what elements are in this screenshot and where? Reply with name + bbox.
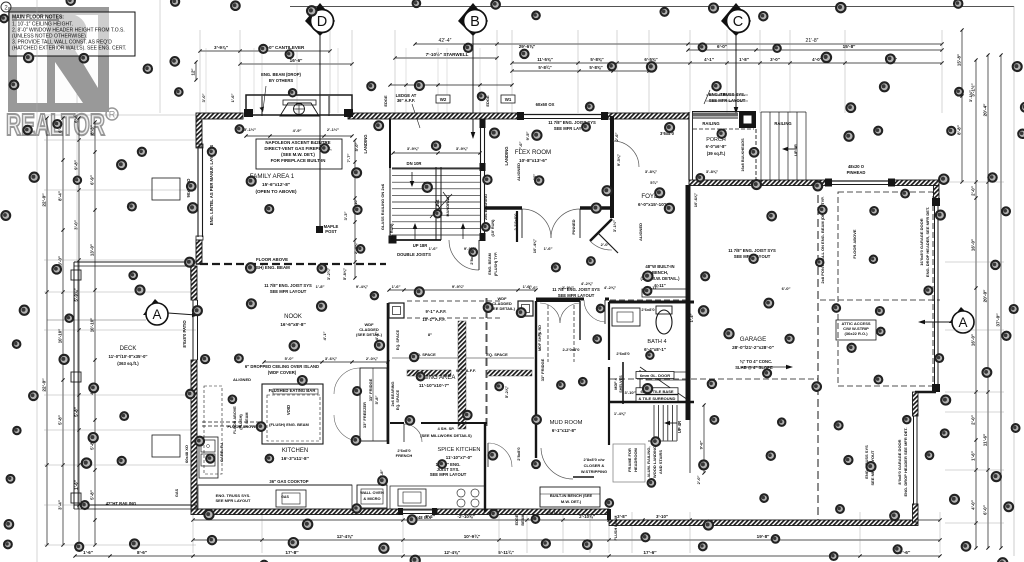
svg-text:RAILING: RAILING [702,121,719,126]
svg-text:6’-0″: 6’-0″ [983,504,988,515]
svg-text:6’-0″: 6’-0″ [782,286,791,291]
svg-text:28’-0″/21’-2″x28’-0″: 28’-0″/21’-2″x28’-0″ [732,345,775,350]
svg-text:9’-4⅝″: 9’-4⅝″ [356,284,368,289]
svg-text:ALIGNED: ALIGNED [233,377,251,382]
svg-text:(39 sq.ft.): (39 sq.ft.) [707,151,726,156]
svg-text:22’-0″: 22’-0″ [42,193,48,207]
svg-text:AND STAIRS: AND STAIRS [658,450,663,474]
svg-text:8’-4″: 8’-4″ [58,190,63,201]
svg-text:3’-10″: 3’-10″ [656,514,669,519]
svg-text:ENG. DROP HEADER SEE MFR DET.: ENG. DROP HEADER SEE MFR DET. [903,427,908,496]
svg-text:POST: POST [325,229,337,234]
svg-text:FAMILY AREA 1: FAMILY AREA 1 [250,173,295,180]
svg-text:60x16.0: 60x16.0 [547,510,562,515]
svg-text:20’-0″: 20’-0″ [983,289,988,302]
svg-text:5’-8⅝″: 5’-8⅝″ [342,268,347,280]
svg-text:48″W BUILT-IN: 48″W BUILT-IN [645,264,674,269]
svg-text:5’-8⅝″: 5’-8⅝″ [589,65,603,70]
svg-text:2’-0″: 2’-0″ [971,414,976,425]
svg-text:(FLUSH): (FLUSH) [239,414,243,430]
svg-text:17’-6″: 17’-6″ [643,550,657,556]
svg-text:ALIGNED: ALIGNED [638,223,643,241]
svg-text:11’-10″x7’-0″: 11’-10″x7’-0″ [446,455,473,460]
svg-text:9’-5″: 9’-5″ [525,132,530,141]
svg-text:(OPEN TO ABOVE): (OPEN TO ABOVE) [255,189,297,194]
svg-text:2’6x8’0: 2’6x8’0 [616,351,630,356]
svg-text:8’-3″: 8’-3″ [90,124,95,135]
svg-text:6’-0″: 6’-0″ [719,92,728,97]
svg-text:5¾″: 5¾″ [650,180,658,185]
svg-text:BENCH,: BENCH, [652,270,668,275]
svg-text:4’-0″: 4’-0″ [971,499,976,510]
svg-text:15’-6″x12’-8″: 15’-6″x12’-8″ [262,182,291,187]
svg-text:UP 4R: UP 4R [677,421,682,433]
svg-text:FLUSHED EATING BAR: FLUSHED EATING BAR [269,388,316,393]
svg-text:2’-0″: 2’-0″ [696,476,701,485]
svg-text:SEE MFR LAYOUT: SEE MFR LAYOUT [558,293,595,298]
svg-text:GARB. R.I.: GARB. R.I. [219,442,224,462]
svg-text:5’-8⅝″: 5’-8⅝″ [590,57,604,62]
svg-text:& TILE SURROUND: & TILE SURROUND [639,396,676,401]
svg-text:5’-8¾″: 5’-8¾″ [538,65,552,70]
svg-text:ALUM. RAILING,: ALUM. RAILING, [646,446,651,477]
svg-text:42’-4″: 42’-4″ [439,38,452,44]
svg-text:29’-6⅝″: 29’-6⅝″ [519,44,536,49]
svg-text:W1: W1 [505,97,512,102]
svg-text:1’-6″: 1’-6″ [529,285,538,290]
svg-text:(SEE M.W. DET.): (SEE M.W. DET.) [281,152,315,157]
svg-text:PINHEAD: PINHEAD [847,170,866,175]
svg-text:B: B [470,14,480,30]
svg-text:EQ. SPACE: EQ. SPACE [486,352,508,357]
svg-text:3’-8⅝″: 3’-8⅝″ [645,169,657,174]
svg-text:(FLUSH) ENG. BEAM: (FLUSH) ENG. BEAM [269,422,309,427]
svg-text:7’-6″: 7’-6″ [518,142,523,151]
svg-text:6’-0″x15’-10″: 6’-0″x15’-10″ [638,202,667,207]
svg-text:BATH 4: BATH 4 [647,339,666,345]
svg-text:9’-6″: 9’-6″ [699,441,704,450]
svg-text:3’-10″: 3’-10″ [624,390,635,395]
svg-text:2’-10⅝″: 2’-10⅝″ [579,514,596,519]
svg-text:1’-8″: 1’-8″ [739,57,750,62]
svg-text:11’-0″/10’-0″x35’-0″: 11’-0″/10’-0″x35’-0″ [109,354,148,359]
svg-text:3’-4″: 3’-4″ [58,499,63,510]
svg-text:1’-8″: 1’-8″ [316,284,325,289]
svg-text:BEAM: BEAM [245,412,249,423]
svg-text:20’-4″: 20’-4″ [983,103,988,116]
svg-text:(10’ RUN): (10’ RUN) [390,223,394,241]
svg-text:UP 4R: UP 4R [793,144,798,156]
svg-text:SEE MFR LAYOUT: SEE MFR LAYOUT [709,98,746,103]
svg-text:5’-1½″: 5’-1½″ [244,127,256,132]
svg-text:W2: W2 [440,97,447,102]
svg-text:FLOOR ABOVE: FLOOR ABOVE [256,257,288,262]
svg-text:9’-1″ A.F.F.: 9’-1″ A.F.F. [426,309,447,314]
svg-text:A: A [152,307,161,322]
svg-text:1’-6″: 1’-6″ [230,94,235,103]
svg-text:SHELVES: SHELVES [619,375,623,393]
svg-text:3’-9⅝″: 3’-9⅝″ [456,146,468,151]
svg-text:3’-1½″: 3’-1½″ [612,220,617,232]
svg-text:33″ FRIDGE: 33″ FRIDGE [368,378,373,401]
svg-text:3’-0″: 3’-0″ [201,94,206,103]
svg-text:6″ DROPPED CEILING OVER ISLAND: 6″ DROPPED CEILING OVER ISLAND [245,364,319,369]
svg-text:11’-10″x10’-7″: 11’-10″x10’-7″ [419,383,450,388]
svg-text:3’-9⅞″: 3’-9⅞″ [214,45,229,50]
svg-text:WALL OVEN: WALL OVEN [360,490,384,495]
svg-text:11 7/8″ ENG. JOIST SYS: 11 7/8″ ENG. JOIST SYS [552,287,600,292]
svg-text:36″ A.F.F.: 36″ A.F.F. [397,98,415,103]
svg-text:EQ. SPACE: EQ. SPACE [396,329,400,350]
svg-text:16’-3″x11’-8″: 16’-3″x11’-8″ [281,456,309,461]
svg-text:9’-0″ CANTILEVER: 9’-0″ CANTILEVER [264,45,305,50]
svg-text:5’-11¾″: 5’-11¾″ [498,550,514,555]
svg-text:9’-5⅝″: 9’-5⅝″ [616,154,621,166]
svg-text:16x8 BULKHEADS: 16x8 BULKHEADS [741,138,745,172]
svg-text:6’-8″: 6’-8″ [74,112,79,123]
svg-text:EDGE: EDGE [383,95,388,107]
svg-text:GLASS RAILING ON 2x6: GLASS RAILING ON 2x6 [380,183,385,230]
svg-text:36″ GAS COOKTOP: 36″ GAS COOKTOP [269,479,308,484]
svg-text:CLOSER &: CLOSER & [584,463,605,468]
svg-text:4’-9″: 4’-9″ [293,128,302,133]
svg-text:8″: 8″ [428,332,432,337]
svg-text:ENG. BEAM (DROP): ENG. BEAM (DROP) [261,72,301,77]
svg-text:(SEE MILLWORK DETAILS): (SEE MILLWORK DETAILS) [420,433,472,438]
svg-text:4’-2⅝″: 4’-2⅝″ [581,281,593,286]
svg-text:BEAM: BEAM [521,514,525,525]
svg-text:11’-5⅝″: 11’-5⅝″ [537,57,553,62]
svg-text:⅜″ TO 4″ CONC.: ⅜″ TO 4″ CONC. [740,359,773,364]
svg-text:3’-8″: 3’-8″ [617,514,628,519]
svg-text:HANDRAIL: HANDRAIL [445,195,450,216]
svg-text:16’-6″: 16’-6″ [290,58,303,63]
svg-text:-2’-10⅝″: -2’-10⅝″ [457,514,475,519]
svg-text:15’-8″: 15’-8″ [957,53,962,66]
svg-text:M.W. DET.): M.W. DET.) [561,499,582,504]
svg-text:4’-1″: 4’-1″ [704,57,715,62]
svg-text:GAS: GAS [175,488,179,497]
svg-text:RAILING: RAILING [774,121,791,126]
svg-text:DECK: DECK [120,346,137,352]
svg-text:3’-8⅝″: 3’-8⅝″ [706,169,718,174]
svg-text:R: R [109,110,116,120]
svg-text:5’-0″: 5’-0″ [354,143,359,152]
svg-text:MUD ROOM: MUD ROOM [550,420,583,426]
svg-text:7’-7″: 7’-7″ [346,154,351,163]
svg-text:5’-0″: 5’-0″ [285,356,294,361]
svg-text:22’-0″: 22’-0″ [42,378,48,392]
svg-text:10’-1″ A.F.F.: 10’-1″ A.F.F. [422,317,445,322]
svg-text:4’-1″: 4’-1″ [322,332,327,341]
svg-text:2’6x8’0: 2’6x8’0 [641,307,655,312]
svg-text:3’-6⅝″: 3’-6⅝″ [325,356,337,361]
svg-text:10’-4⅝″: 10’-4⅝″ [532,239,537,253]
svg-text:1’-6″: 1’-6″ [971,450,976,461]
svg-text:6’-1″x12’-8″: 6’-1″x12’-8″ [552,428,577,433]
svg-text:D: D [317,14,327,30]
svg-text:KITCHEN: KITCHEN [282,448,308,454]
svg-text:HEADROOM: HEADROOM [633,447,638,471]
svg-text:16’-0″: 16’-0″ [971,238,976,251]
svg-text:1’-4⅝″: 1’-4⅝″ [614,411,626,416]
svg-text:19’-8″: 19’-8″ [757,534,770,539]
svg-text:16’-0″: 16’-0″ [971,333,976,346]
svg-text:3’-0″: 3’-0″ [74,219,79,230]
svg-text:DN 10R: DN 10R [407,161,422,166]
svg-text:1’-6″: 1’-6″ [392,284,401,289]
svg-text:16’-6″x8’-8″: 16’-6″x8’-8″ [280,322,306,327]
svg-text:(10’ RUN): (10’ RUN) [491,219,495,237]
svg-text:(HATCHED EXTERIOR WALLS). SEE: (HATCHED EXTERIOR WALLS). SEE ENG. CERT. [12,46,126,52]
svg-text:EQ. SPACE: EQ. SPACE [396,389,400,410]
svg-text:11 7/8″ ENG. JOIST SYS: 11 7/8″ ENG. JOIST SYS [728,248,776,253]
svg-text:42″HT RAILING: 42″HT RAILING [106,501,137,506]
svg-text:1’-4″: 1’-4″ [689,314,694,323]
svg-text:3’-9⅝″: 3’-9⅝″ [407,146,419,151]
svg-text:SEE MFR LAYOUT: SEE MFR LAYOUT [430,472,467,477]
svg-text:2’-0″: 2’-0″ [601,242,610,247]
svg-text:8’0x8’0 PATIO: 8’0x8’0 PATIO [182,320,187,348]
svg-text:2’-0″: 2’-0″ [971,185,976,196]
svg-text:9’-9¾″: 9’-9¾″ [452,284,464,289]
svg-text:EDGE: EDGE [515,514,519,525]
svg-text:5’-8″: 5’-8″ [90,489,95,500]
svg-text:FLOOR ABOVE: FLOOR ABOVE [233,406,237,434]
svg-text:BUILT-IN BENCH (SEE: BUILT-IN BENCH (SEE [550,493,593,498]
svg-text:12’-4⅝″: 12’-4⅝″ [337,534,354,539]
svg-text:3’-3″: 3’-3″ [343,212,348,221]
svg-text:21’-8″: 21’-8″ [806,38,819,44]
svg-text:FRAME FOR: FRAME FOR [627,448,632,472]
svg-text:SEE MFR LAYOUT: SEE MFR LAYOUT [270,289,307,294]
svg-text:2’8x8’0: 2’8x8’0 [516,447,521,461]
svg-text:2x6 BEARING: 2x6 BEARING [483,194,488,220]
svg-text:60x48 XO: 60x48 XO [184,445,189,463]
svg-text:5’-8″: 5’-8″ [374,396,379,405]
svg-text:ALIGNED: ALIGNED [516,163,521,181]
svg-text:2’-0⅝″: 2’-0⅝″ [366,356,378,361]
svg-text:17’-8″: 17’-8″ [285,550,299,556]
svg-text:2’-1½″: 2’-1½″ [327,127,339,132]
svg-text:1’-6″: 1’-6″ [83,550,94,555]
svg-text:FLUSH BEAM: FLUSH BEAM [614,516,618,541]
svg-text:8’0x8’0 GARAGE DOOR: 8’0x8’0 GARAGE DOOR [897,439,902,484]
svg-text:3’-1½″: 3’-1½″ [968,90,973,102]
svg-text:NAPOLEON ASCENT B42NTRE: NAPOLEON ASCENT B42NTRE [265,140,330,145]
svg-text:GARAGE: GARAGE [740,336,766,343]
svg-text:37’-0″: 37’-0″ [996,313,1002,327]
svg-text:(FLUSH) TYP.: (FLUSH) TYP. [494,252,498,276]
svg-text:13’-0″: 13’-0″ [90,243,95,256]
svg-text:9’-8″: 9’-8″ [74,159,79,170]
svg-text:C: C [733,14,743,30]
svg-text:ENG. BEAM: ENG. BEAM [488,253,492,275]
svg-text:GAS: GAS [281,495,289,499]
svg-text:NOOK: NOOK [284,314,302,320]
svg-text:LANDING: LANDING [363,134,368,153]
svg-text:BY OTHERS: BY OTHERS [269,78,294,83]
svg-text:6mm GL. DOOR: 6mm GL. DOOR [640,373,670,378]
svg-text:ENG. DROP HEADER, SEE MFR DET.: ENG. DROP HEADER, SEE MFR DET. [925,207,930,277]
svg-text:10’-6⅞″: 10’-6⅞″ [693,193,698,207]
svg-text:MDF 4: MDF 4 [614,377,618,389]
svg-text:DOUBLE JOISTS: DOUBLE JOISTS [397,252,431,257]
svg-text:SEE MFR LAYOUT: SEE MFR LAYOUT [216,498,252,503]
svg-text:FRENCH: FRENCH [396,453,413,458]
svg-text:FLOOR ABOVE: FLOOR ABOVE [852,229,857,259]
svg-text:15’-8″: 15’-8″ [843,44,856,49]
svg-text:(WDF COVER): (WDF COVER) [268,370,297,375]
svg-text:W.STRIPPING: W.STRIPPING [581,469,607,474]
svg-text:3’-0″: 3’-0″ [770,57,781,62]
svg-text:5’-2⅞″: 5’-2⅞″ [504,386,509,398]
svg-text:(363 sq.ft.): (363 sq.ft.) [117,361,139,366]
svg-text:UP 18R: UP 18R [413,243,428,248]
svg-text:60x60 OX: 60x60 OX [536,102,555,107]
svg-text:1’-6″: 1’-6″ [429,246,438,251]
svg-text:8″: 8″ [538,332,542,337]
svg-text:11 7/8″ ENG. JOIST SYS: 11 7/8″ ENG. JOIST SYS [264,283,312,288]
svg-text:2’-6″: 2’-6″ [614,133,619,142]
svg-text:6’-0″: 6’-0″ [717,44,728,49]
svg-text:& MICRO: & MICRO [363,496,380,501]
svg-text:2-2’6x8’0: 2-2’6x8’0 [513,213,518,231]
svg-text:LANDING: LANDING [504,146,509,165]
svg-text:10’-8″x13’-6″: 10’-8″x13’-6″ [519,158,548,163]
svg-text:2-2’0x8’0: 2-2’0x8’0 [563,347,581,352]
svg-text:WOOD LANDING: WOOD LANDING [652,446,657,478]
svg-text:33″ FREEZER: 33″ FREEZER [362,402,367,428]
svg-text:2x6 BEARING: 2x6 BEARING [391,382,395,407]
svg-text:SPICE KITCHEN: SPICE KITCHEN [438,447,481,453]
svg-text:1’-6″: 1’-6″ [544,246,553,251]
svg-text:16’0x8’0 GARAGE DOOR: 16’0x8’0 GARAGE DOOR [919,218,924,265]
svg-text:12’-4⅝″: 12’-4⅝″ [444,550,461,555]
svg-text:6’-9″: 6’-9″ [90,174,95,185]
svg-text:9’-7″ A.F.F.: 9’-7″ A.F.F. [456,368,476,373]
svg-text:MDF SH. & RD: MDF SH. & RD [538,325,542,351]
svg-text:(36x22 R.O.): (36x22 R.O.) [844,331,868,336]
svg-text:2’8x8’0 c/w: 2’8x8’0 c/w [584,457,606,462]
svg-text:4’-2⅝″: 4’-2⅝″ [604,285,616,290]
svg-text:2’-9½″: 2’-9½″ [562,285,574,290]
svg-text:A: A [958,315,967,330]
svg-text:48x20 O: 48x20 O [848,164,865,169]
svg-text:PINNED: PINNED [571,219,576,234]
svg-text:11’-6″: 11’-6″ [983,433,988,446]
svg-text:FOR FIREPLACE BUILT-IN: FOR FIREPLACE BUILT-IN [271,158,326,163]
svg-text:10’-9¾″: 10’-9¾″ [464,533,481,539]
svg-text:5’-8″: 5’-8″ [58,414,63,425]
svg-text:6’-0″x6’-8″: 6’-0″x6’-8″ [706,144,727,149]
svg-text:8’-8″: 8’-8″ [957,124,962,135]
svg-text:12″: 12″ [191,68,196,76]
svg-text:4 SH. SP.: 4 SH. SP. [437,426,454,431]
svg-text:VOID: VOID [286,405,291,415]
svg-text:2x6: 2x6 [435,199,440,206]
svg-text:4’-1″: 4’-1″ [374,332,379,341]
svg-text:33″ FRIDGE: 33″ FRIDGE [540,358,545,381]
svg-text:8’-6″: 8’-6″ [137,550,148,555]
